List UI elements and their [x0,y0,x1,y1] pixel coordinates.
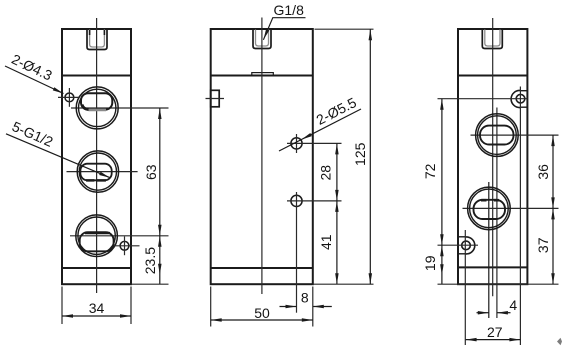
port P1 center line [71,107,169,109]
port PA [476,114,519,157]
svg-text:72: 72 [422,163,438,179]
left view G1/8 notch [87,30,107,50]
dimension 27 [466,324,521,342]
mounting hole H2 [114,237,140,256]
svg-text:23.5: 23.5 [142,247,158,274]
dimension 37 [535,208,555,284]
middle view G1/8 notch [253,30,271,49]
mounting hole H1 [58,88,80,107]
port P3 center line [70,235,169,237]
svg-text:28: 28 [318,165,334,181]
left view vertical center line [96,18,98,293]
port PB center line [463,207,559,209]
middle view side tab [206,90,225,107]
upper port center line [496,108,498,319]
svg-text:27: 27 [487,324,503,340]
hole M1 (2-Ø5.5) [287,134,342,153]
dimension 8 [280,289,332,308]
dimension 19 [422,245,558,284]
port P3 (5-G1/2) [76,215,118,257]
svg-text:34: 34 [89,300,105,316]
dimension 28 [318,143,339,201]
left view body outline [62,29,131,284]
hole M2 (2-Ø5.5) [287,192,342,313]
label G1/8 with leader [262,2,306,41]
port PA center line [471,134,559,136]
dimension 41 [313,201,374,284]
dimension 36 [535,135,555,208]
svg-text:8: 8 [301,289,309,305]
svg-text:41: 41 [318,234,334,250]
port P2 (5-G1/2) [77,151,118,192]
right view body center line [492,18,494,296]
dimension 23.5 [131,236,169,284]
svg-text:G1/8: G1/8 [274,2,305,18]
svg-text:37: 37 [535,237,551,253]
svg-text:36: 36 [535,164,551,180]
dimension 125 [315,29,374,284]
port P1 (5-G1/2) [76,87,118,129]
dimension 34 [62,287,131,325]
middle view vertical center line [261,18,263,295]
label 2-Ø4.3 with leader [5,51,64,95]
middle view top tab [252,73,273,76]
svg-text:63: 63 [143,164,159,180]
hole C1 [438,87,528,346]
label 2-Ø5.5 with leader [279,94,361,151]
lower port center line [488,182,490,318]
dimension 72 [422,99,444,246]
middle view body outline [211,29,313,284]
right view G1/8 notch [482,30,502,49]
svg-text:19: 19 [422,255,438,271]
svg-text:4: 4 [509,297,517,313]
port P2 center line [67,171,138,173]
dimension 4 [477,297,518,314]
svg-text:125: 125 [352,142,368,166]
svg-text:50: 50 [254,305,270,321]
label 5-G1/2 with leader [6,118,111,179]
gray diamond artifact [557,338,562,345]
right view body outline [458,29,527,284]
dimension 63 [143,108,162,236]
dimension 50 [211,287,313,327]
hole C2 [438,230,479,345]
port PB [468,187,511,230]
